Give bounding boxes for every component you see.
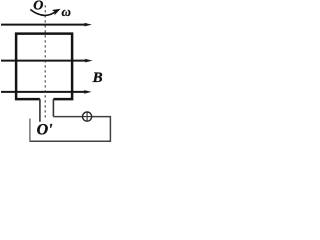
svg-text:O': O' — [37, 122, 54, 139]
rotation axis O-O' (dashed) — [44, 5, 46, 117]
rotation arrow omega — [30, 6, 62, 15]
field line arrow B middle — [1, 59, 93, 63]
field line arrow B top — [1, 23, 92, 27]
wire external circuit box — [30, 117, 111, 142]
svg-text:ω: ω — [62, 4, 71, 19]
svg-text:O: O — [33, 0, 43, 13]
wire box left edge — [29, 119, 31, 142]
svg-text:B: B — [92, 70, 103, 86]
field line arrow B bottom — [1, 90, 92, 94]
wire left lead — [39, 99, 41, 122]
wire right lead — [52, 99, 54, 117]
coil loop — [16, 34, 72, 100]
galvanometer G — [83, 112, 92, 121]
